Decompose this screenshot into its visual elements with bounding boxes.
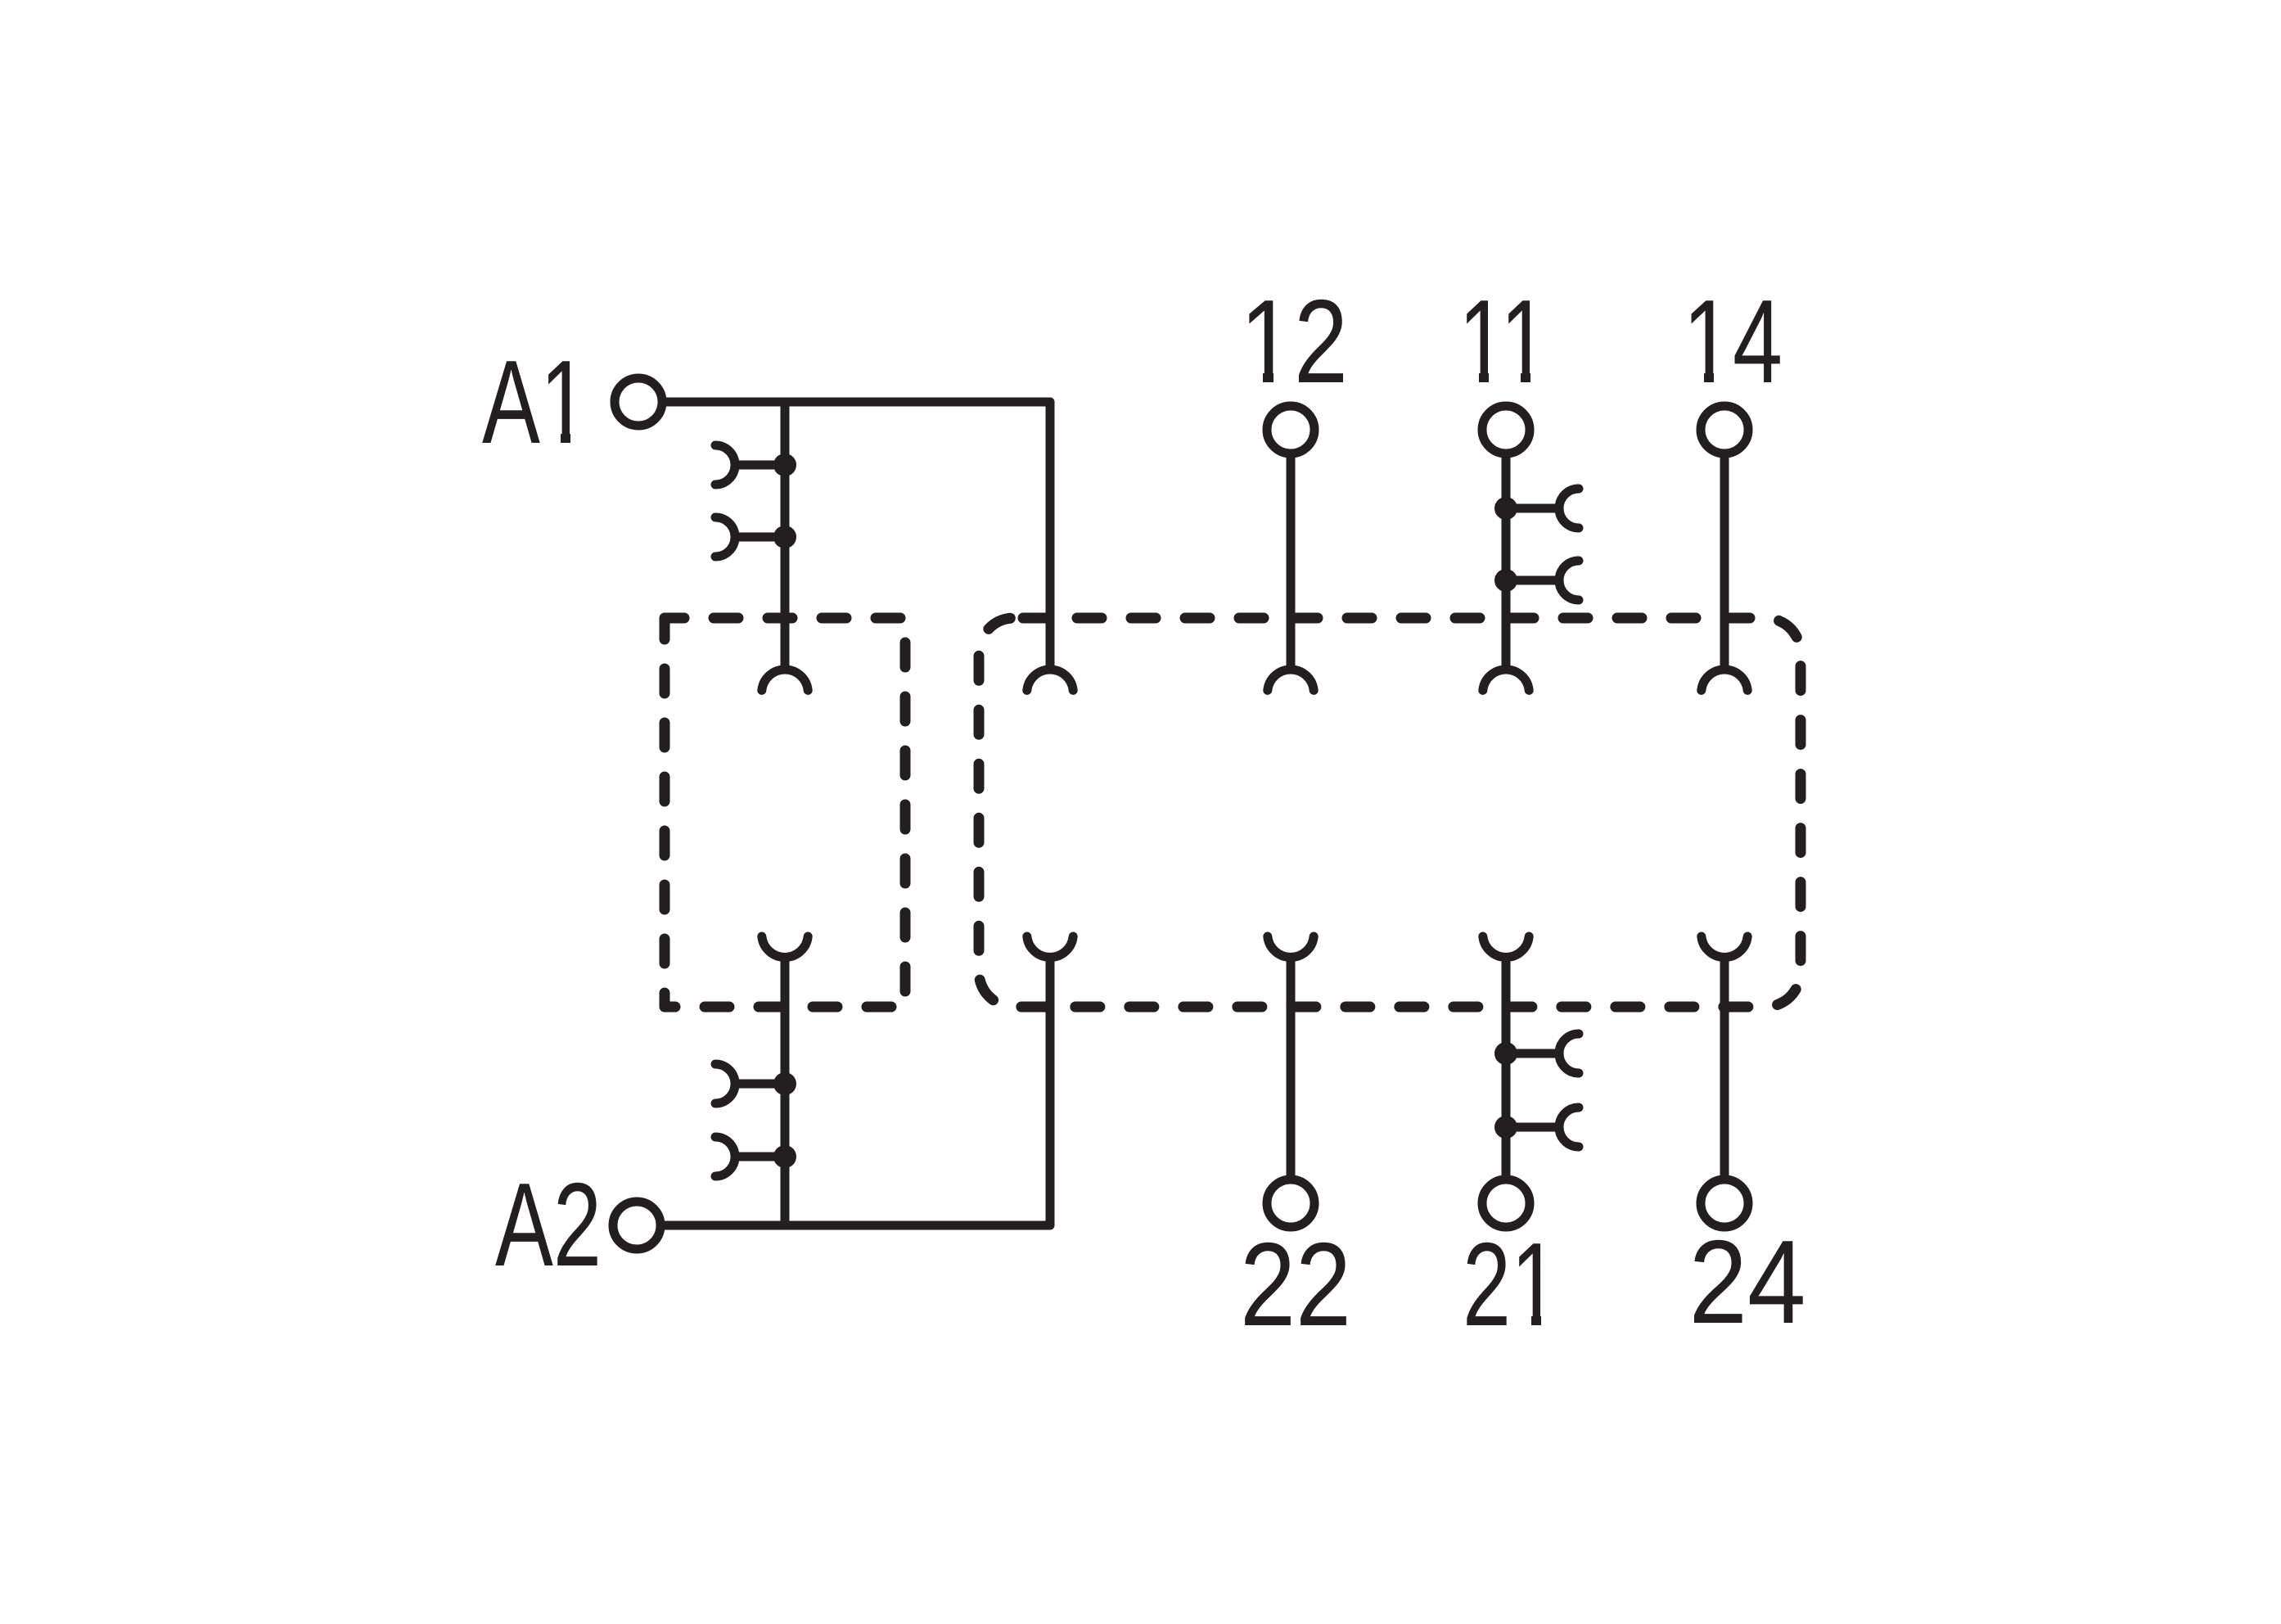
socket (female) bottom row at x=1840 bbox=[1483, 936, 1529, 957]
svg-text:14: 14 bbox=[1683, 275, 1783, 408]
svg-text:24: 24 bbox=[1689, 1216, 1806, 1348]
coil contact fork K1a bbox=[715, 445, 735, 485]
terminal 22 circle bbox=[1267, 1180, 1314, 1227]
socket (female) top row at x=959 bbox=[762, 670, 808, 690]
wire 21 bbox=[1502, 957, 1511, 1180]
tick K2a bbox=[733, 1080, 785, 1089]
socket (female) top row at x=1840 bbox=[1483, 670, 1529, 690]
aux contact fork K11b bbox=[1559, 561, 1579, 600]
junction dot K2b bbox=[773, 1145, 796, 1168]
junction dot K1b bbox=[773, 526, 796, 548]
relay contact module outline (dashed box, right, rounded) bbox=[979, 618, 1801, 1007]
svg-text:A1: A1 bbox=[482, 336, 588, 468]
wire 14 bbox=[1720, 453, 1729, 670]
junction dot K11a bbox=[1494, 497, 1517, 520]
wire 12 bbox=[1287, 453, 1296, 670]
wire 22 bbox=[1287, 957, 1296, 1180]
tick K2b bbox=[733, 1153, 785, 1162]
tick K1a bbox=[733, 461, 785, 470]
junction dot K11b bbox=[1494, 569, 1517, 592]
junction dot K2a bbox=[773, 1072, 796, 1095]
tick K11a bbox=[1506, 504, 1561, 513]
socket (female) bottom row at x=959 bbox=[762, 936, 808, 957]
coil contact fork K1b bbox=[715, 517, 735, 557]
svg-text:12: 12 bbox=[1240, 275, 1348, 408]
tick K21b bbox=[1506, 1123, 1561, 1132]
glyph tweak: trim foot serif of digit 1 (A1) bbox=[545, 372, 1729, 1327]
terminal 11 circle bbox=[1482, 406, 1530, 453]
terminal 21 circle bbox=[1482, 1180, 1530, 1227]
junction dot K21a bbox=[1494, 1042, 1517, 1065]
terminal A1 circle bbox=[615, 378, 662, 426]
terminal 24 circle bbox=[1701, 1180, 1748, 1227]
aux contact fork K11a bbox=[1559, 489, 1579, 528]
wire 24 bbox=[1720, 957, 1729, 1180]
svg-text:21: 21 bbox=[1463, 1218, 1559, 1351]
coil contact fork K2b bbox=[715, 1137, 735, 1176]
tick K21a bbox=[1506, 1049, 1561, 1058]
terminal A2 circle bbox=[613, 1202, 660, 1249]
wire A1 tap at x=959 bbox=[781, 402, 790, 670]
socket (female) top row at x=2107 bbox=[1702, 670, 1747, 690]
terminal 12 circle bbox=[1267, 406, 1314, 453]
socket (female) top row at x=1577 bbox=[1268, 670, 1314, 690]
relay coil module outline (dashed box, left) bbox=[665, 618, 905, 1007]
svg-text:22: 22 bbox=[1240, 1218, 1351, 1351]
wire A2 tap at x=959 bbox=[781, 957, 790, 1225]
wire A1 horizontal + drop bbox=[666, 402, 1050, 670]
aux contact fork K21b bbox=[1559, 1107, 1579, 1147]
socket (female) bottom row at x=1577 bbox=[1268, 936, 1314, 957]
junction dot K21b bbox=[1494, 1116, 1517, 1139]
wire 11 bbox=[1502, 453, 1511, 670]
socket (female) top row at x=1283 bbox=[1027, 670, 1073, 690]
coil contact fork K2a bbox=[715, 1064, 735, 1103]
svg-text:A2: A2 bbox=[495, 1158, 602, 1291]
aux contact fork K21a bbox=[1559, 1034, 1579, 1073]
wire A2 horizontal + riser bbox=[665, 957, 1050, 1225]
tick K11b bbox=[1506, 576, 1561, 585]
svg-text:11: 11 bbox=[1458, 275, 1548, 408]
terminal 14 circle bbox=[1701, 406, 1748, 453]
socket (female) bottom row at x=1283 bbox=[1027, 936, 1073, 957]
junction dot K1a bbox=[773, 453, 796, 476]
tick K1b bbox=[733, 533, 785, 542]
socket (female) bottom row at x=2107 bbox=[1702, 936, 1747, 957]
